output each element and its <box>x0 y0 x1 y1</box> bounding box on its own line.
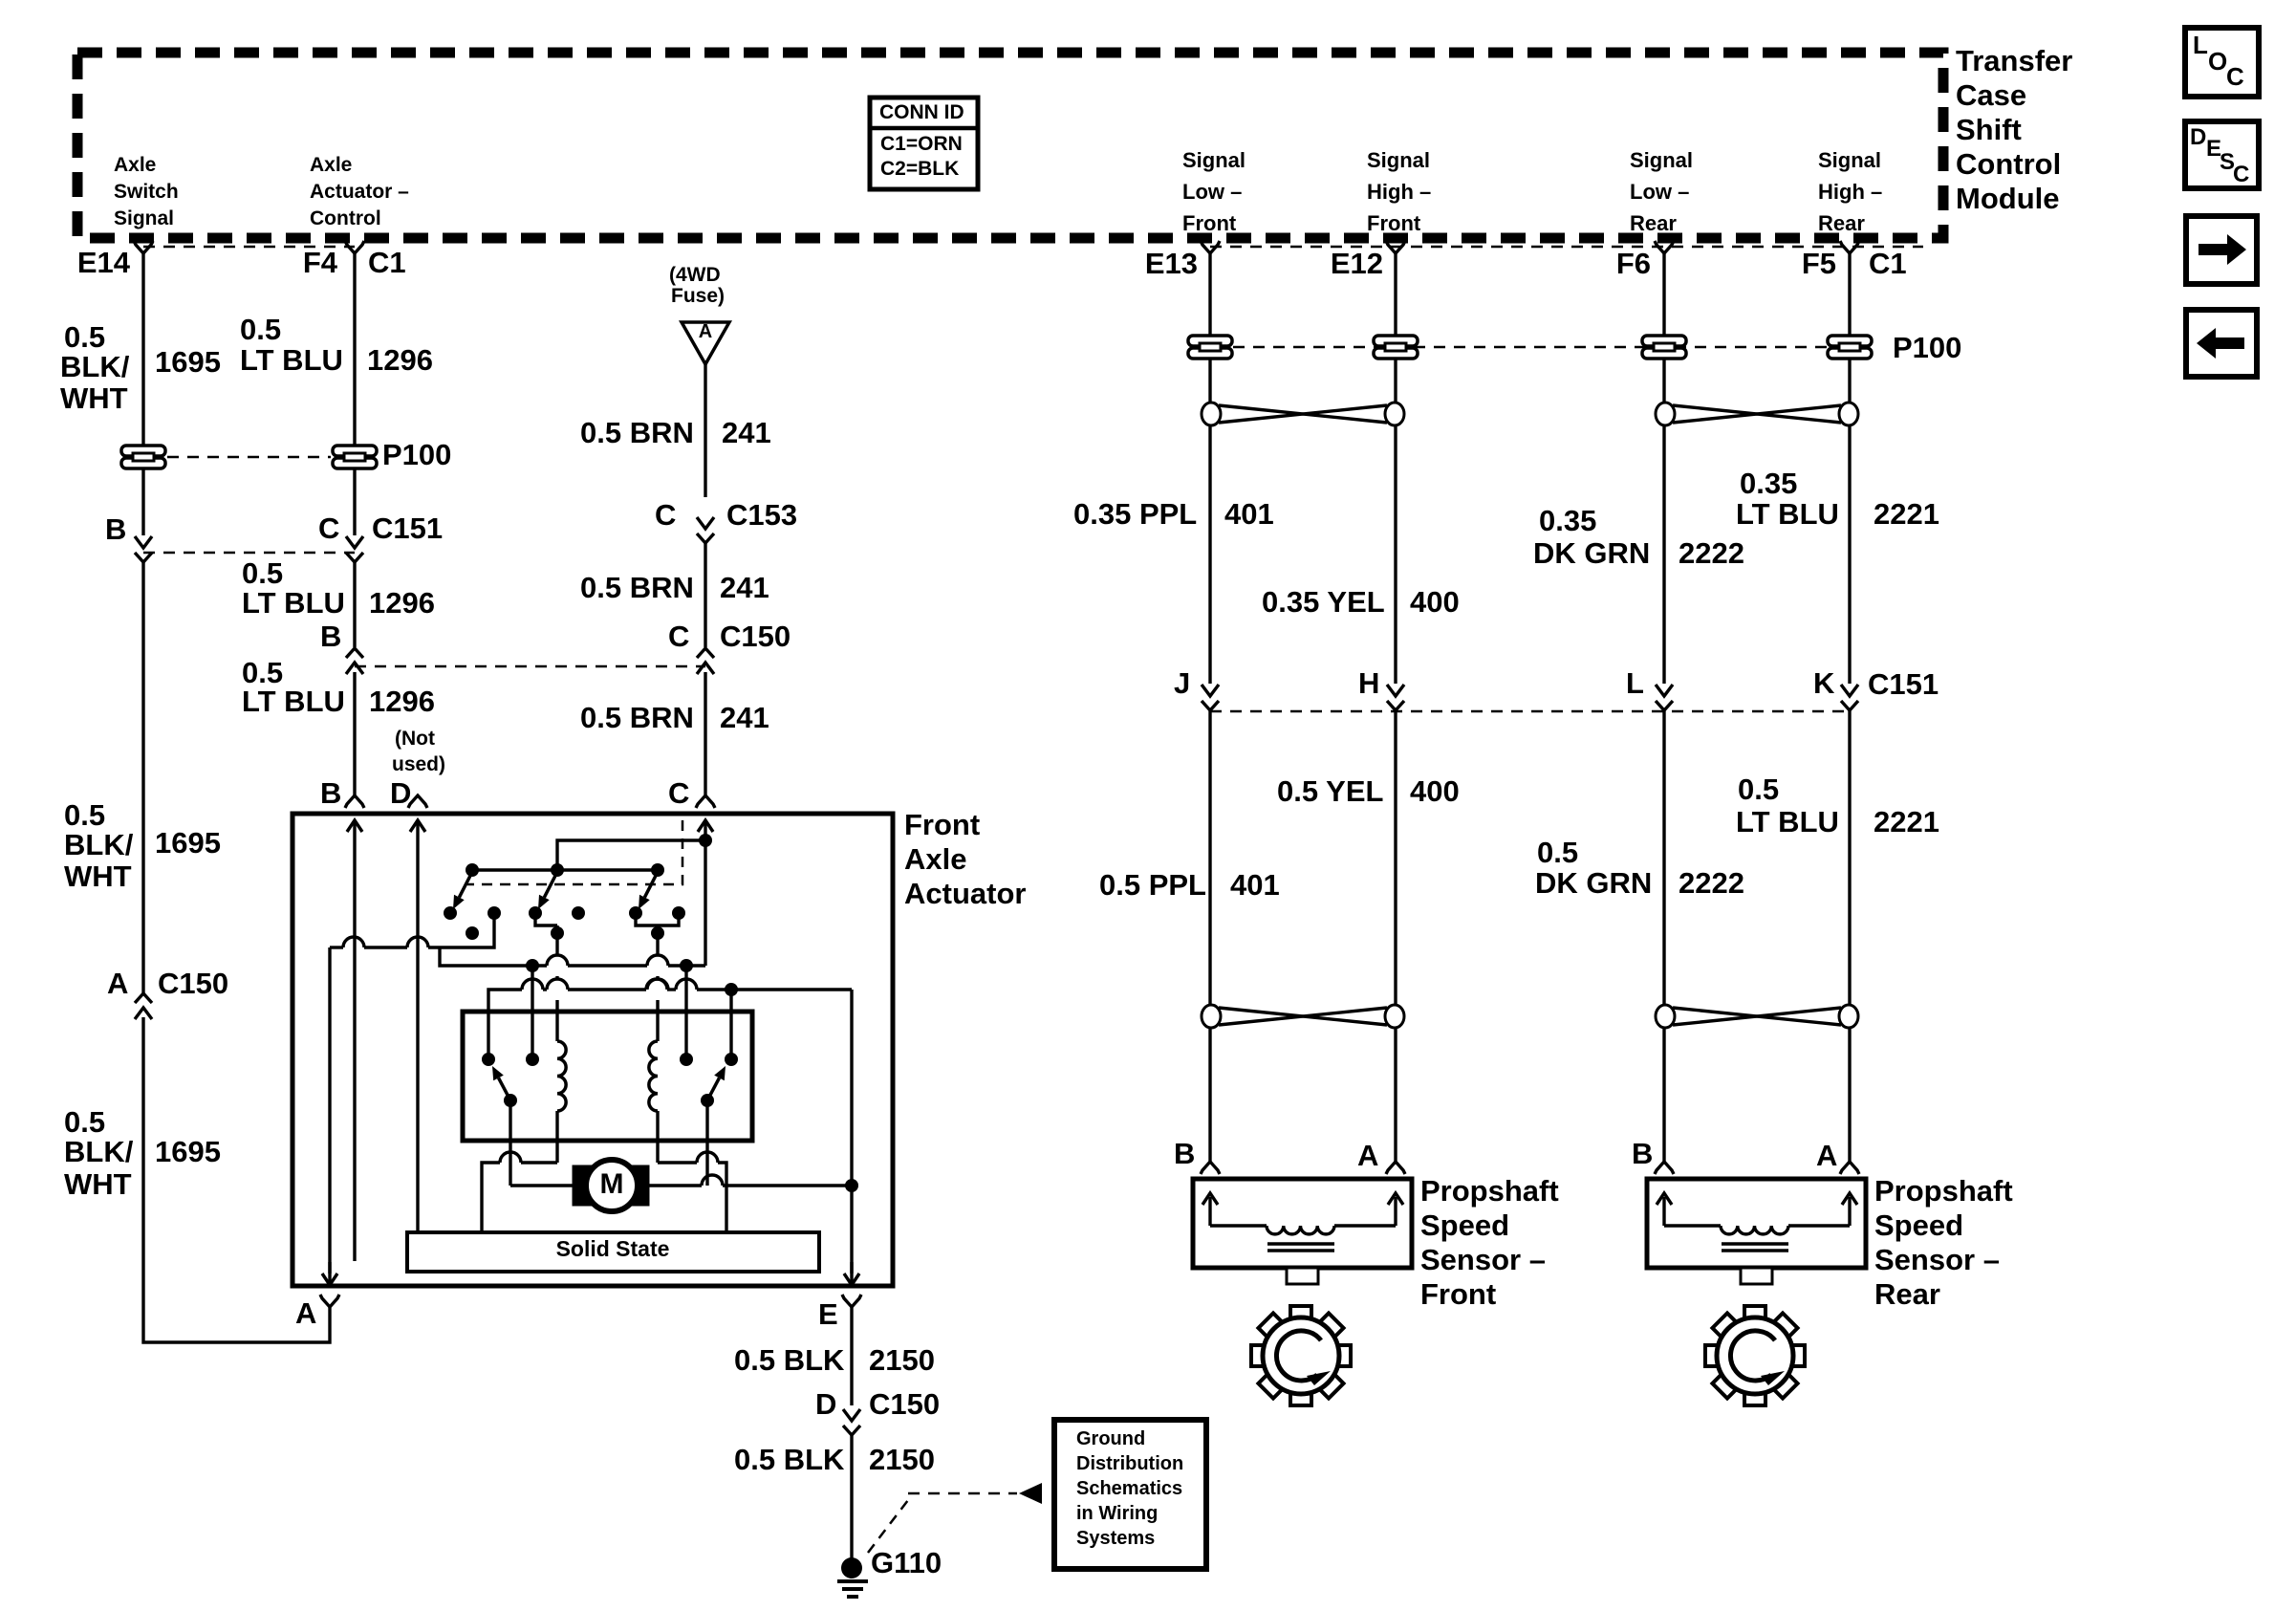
DESC icon box <box>2185 121 2259 188</box>
svg-text:0.5 BRN: 0.5 BRN <box>580 416 694 449</box>
fuse A symbol (4WD fuse feed) <box>682 321 729 364</box>
wire 401 segment: twist to sensor pin B <box>1208 1029 1211 1162</box>
svg-text:Signal: Signal <box>1182 148 1245 172</box>
svg-text:B: B <box>1174 1137 1195 1170</box>
actuator internal bus E (motor return) <box>488 979 852 1186</box>
inline connector C150 pin B (wire 1296) <box>346 648 363 674</box>
wire label 0.5 BLK/WHT (top) <box>60 320 130 415</box>
svg-text:L: L <box>1626 666 1644 700</box>
actuator switch 3 movable contact arrow <box>639 872 658 909</box>
svg-text:Signal: Signal <box>1818 148 1881 172</box>
twisted pair symbol (rear, upper) <box>1656 403 1858 425</box>
svg-text:1695: 1695 <box>155 826 221 860</box>
svg-text:in Wiring: in Wiring <box>1076 1503 1158 1524</box>
svg-text:0.35: 0.35 <box>1740 467 1797 500</box>
svg-text:BLK/: BLK/ <box>64 1135 134 1168</box>
actuator wire: switch 3 contacts to right coil <box>636 913 679 1041</box>
wire label 0.5 DK GRN <box>1535 836 1652 900</box>
wire 1296 segment: C150 to actuator pin B <box>353 672 356 796</box>
module pin label: Signal High Rear <box>1818 148 1882 235</box>
wire segment: E13 (PPL 401) pin to P100 <box>1208 253 1211 335</box>
svg-text:B: B <box>320 776 341 810</box>
svg-text:(4WD: (4WD <box>669 264 721 286</box>
pass-through grommet P100 on wire 1296 <box>333 446 377 468</box>
pin F4 terminal fork <box>345 241 364 253</box>
svg-text:Low –: Low – <box>1630 180 1689 204</box>
svg-text:1296: 1296 <box>369 586 435 620</box>
svg-text:(Not: (Not <box>395 728 435 750</box>
svg-text:1695: 1695 <box>155 1135 221 1168</box>
svg-text:Front: Front <box>1182 211 1237 235</box>
svg-text:401: 401 <box>1230 868 1280 902</box>
wire 1695 segment: E14 to P100 <box>141 253 144 446</box>
wire 401 segment: twist to C151 <box>1208 426 1211 684</box>
LOC icon box <box>2185 28 2259 97</box>
svg-text:A: A <box>295 1296 316 1330</box>
svg-text:B: B <box>320 620 341 653</box>
svg-text:J: J <box>1174 666 1190 700</box>
wire 401 segment: P100 to twist <box>1208 359 1211 402</box>
actuator pin C terminal fork <box>696 795 715 808</box>
relay right coil L2 <box>649 1041 658 1163</box>
pin E13 terminal fork <box>1201 241 1220 253</box>
sensor pickup coil circuit (Front) <box>1202 1193 1403 1251</box>
svg-text:Rear: Rear <box>1630 211 1677 235</box>
module pin label: Signal Low Front <box>1182 148 1245 235</box>
svg-text:C150: C150 <box>158 967 228 1000</box>
actuator internal dashed wire from pin C <box>467 820 682 884</box>
svg-text:DK GRN: DK GRN <box>1535 866 1652 900</box>
pin E14 terminal fork <box>134 241 153 253</box>
svg-text:C: C <box>668 776 689 810</box>
actuator pin E terminal fork <box>842 1295 861 1307</box>
module box: Transfer Case Shift Control Module (dashed) <box>77 53 1943 238</box>
svg-text:0.5 BLK: 0.5 BLK <box>734 1343 845 1377</box>
svg-text:M: M <box>600 1168 624 1200</box>
svg-text:Signal: Signal <box>114 207 174 229</box>
svg-text:0.5 BRN: 0.5 BRN <box>580 701 694 734</box>
actuator wire: switch 2 contact to left coil <box>535 913 568 1041</box>
P100 dashed link (right) <box>1233 346 1827 349</box>
reluctor gear (Rear) <box>1705 1306 1805 1405</box>
svg-text:WHT: WHT <box>60 381 128 415</box>
sensor rear pin B fork <box>1655 1162 1674 1174</box>
svg-text:C150: C150 <box>720 620 791 653</box>
pass-through grommet P100 on wire 1695 <box>121 446 165 468</box>
svg-text:C: C <box>668 620 689 653</box>
svg-text:WHT: WHT <box>64 860 132 893</box>
actuator internal bus A (relay feed) <box>440 947 705 972</box>
svg-text:LT BLU: LT BLU <box>1736 497 1839 531</box>
svg-text:C151: C151 <box>372 512 443 545</box>
actuator wire: right pivot to motor <box>705 1100 708 1186</box>
sensor pickup coil circuit (Rear) <box>1657 1193 1857 1251</box>
relay right movable contact arrow <box>701 1066 726 1107</box>
svg-text:High –: High – <box>1367 180 1431 204</box>
svg-text:0.5 YEL: 0.5 YEL <box>1277 774 1383 808</box>
svg-text:K: K <box>1813 666 1835 700</box>
reluctor gear (Front) <box>1251 1306 1351 1405</box>
motor M <box>573 1160 649 1211</box>
svg-text:Case: Case <box>1956 78 2026 112</box>
actuator switch common feed wire <box>557 834 712 870</box>
svg-text:0.35 PPL: 0.35 PPL <box>1073 497 1197 531</box>
svg-text:A: A <box>107 967 128 1000</box>
svg-text:1695: 1695 <box>155 345 221 379</box>
module pin label: Signal Low Rear <box>1630 148 1693 235</box>
svg-text:C: C <box>318 512 339 545</box>
svg-text:2222: 2222 <box>1679 536 1744 570</box>
wire label 0.5 LT BLU <box>1736 773 1839 838</box>
actuator wire: bus A to relay right contact <box>684 966 687 1059</box>
wire segment: F5 (LT BLU 2221) pin to P100 <box>1848 253 1851 335</box>
sensor rear pin A fork <box>1840 1162 1859 1174</box>
inline connector C151 pin C (wire 1296) <box>346 536 363 562</box>
wire label 0.5 BLK/WHT (middle) <box>64 798 134 893</box>
svg-text:2150: 2150 <box>869 1343 935 1377</box>
Front Axle Actuator box <box>292 814 893 1286</box>
wire label 0.5 LT BLU (bottom) <box>242 656 345 718</box>
svg-text:E: E <box>818 1297 838 1331</box>
svg-text:Actuator: Actuator <box>904 877 1026 910</box>
pin E12 terminal fork <box>1386 241 1405 253</box>
svg-text:0.5: 0.5 <box>64 798 105 832</box>
svg-text:L: L <box>2193 31 2208 59</box>
inline connector C153 pin C <box>697 517 714 543</box>
actuator pin D entry arrow <box>410 820 425 1233</box>
pass-through grommet P100 on wire F5 <box>1828 336 1872 359</box>
svg-text:0.5: 0.5 <box>1537 836 1578 869</box>
svg-text:LT BLU: LT BLU <box>242 586 345 620</box>
svg-text:A: A <box>699 321 712 342</box>
svg-text:241: 241 <box>720 701 769 734</box>
wire label 0.5 LT BLU (middle) <box>242 556 345 620</box>
wire 2222 segment: P100 to twist <box>1662 359 1665 402</box>
svg-text:B: B <box>1632 1137 1653 1170</box>
svg-text:LT BLU: LT BLU <box>240 343 343 377</box>
svg-text:Schematics: Schematics <box>1076 1478 1182 1499</box>
actuator pin A terminal fork <box>320 1295 339 1307</box>
actuator switch 1 movable contact arrow <box>453 872 472 909</box>
module pin label: Axle Actuator Control <box>310 154 409 229</box>
svg-text:Axle: Axle <box>114 154 156 176</box>
actuator wire: bus A to relay left contact <box>531 966 533 1059</box>
actuator pin B entry arrow <box>347 820 362 1261</box>
svg-text:400: 400 <box>1410 585 1460 619</box>
inline connector C151 pin J <box>1202 685 1219 710</box>
svg-text:Rear: Rear <box>1874 1277 1940 1311</box>
connector C1 dashed line (right, pins E13-F5) <box>1210 246 1923 249</box>
actuator pin A rail <box>322 947 337 1285</box>
twisted pair symbol (front, upper) <box>1202 403 1404 425</box>
svg-text:P100: P100 <box>382 438 451 471</box>
relay left movable contact arrow <box>492 1066 517 1107</box>
sensor mounting tab (Front) <box>1287 1268 1318 1284</box>
inline connector C150 pin D (wire 2150) <box>843 1409 860 1435</box>
svg-text:CONN ID: CONN ID <box>879 101 964 123</box>
svg-text:Distribution: Distribution <box>1076 1453 1183 1474</box>
actuator switch stationary contacts <box>444 906 685 940</box>
module pin label: Signal High Front <box>1367 148 1431 235</box>
svg-text:2150: 2150 <box>869 1443 935 1476</box>
svg-text:C1=ORN: C1=ORN <box>880 133 963 155</box>
wire segment: E12 (YEL 400) pin to P100 <box>1394 253 1397 335</box>
svg-text:0.5: 0.5 <box>64 1105 105 1139</box>
actuator wire: motor to pin E junction <box>649 1175 858 1192</box>
svg-text:O: O <box>2208 47 2227 76</box>
svg-text:0.5: 0.5 <box>64 320 105 354</box>
CONN ID table <box>870 98 978 189</box>
actuator switch common bus wire <box>466 863 664 877</box>
svg-text:2222: 2222 <box>1679 866 1744 900</box>
svg-text:Shift: Shift <box>1956 113 2022 146</box>
wire 1695 segment: C150 to Front Axle Actuator pin A <box>143 1017 330 1342</box>
svg-text:H: H <box>1358 666 1379 700</box>
svg-text:0.5: 0.5 <box>240 313 281 346</box>
svg-text:Sensor –: Sensor – <box>1420 1243 1546 1276</box>
inline connector C151 pin L <box>1656 685 1673 710</box>
svg-text:BLK/: BLK/ <box>64 828 134 861</box>
wire 1695 segment: P100 to C151 <box>141 468 144 535</box>
svg-text:241: 241 <box>720 571 769 604</box>
wire 1296 segment: F4 to P100 <box>353 253 356 446</box>
twisted pair symbol (rear, lower) <box>1656 1005 1858 1028</box>
svg-text:WHT: WHT <box>64 1167 132 1201</box>
svg-text:0.5 BLK: 0.5 BLK <box>734 1443 845 1476</box>
svg-text:Control: Control <box>1956 147 2061 181</box>
wire 241 segment: C153 to C150 <box>704 543 706 647</box>
svg-text:E13: E13 <box>1145 247 1198 280</box>
svg-text:G110: G110 <box>871 1546 942 1579</box>
svg-text:C1: C1 <box>368 246 406 279</box>
actuator wire: contact to pin A bus <box>330 913 494 947</box>
pin F6 terminal fork <box>1655 241 1674 253</box>
connector C150 dashed link (wire 1296 to wire 241) <box>355 665 705 668</box>
svg-text:A: A <box>1357 1139 1378 1172</box>
svg-text:2221: 2221 <box>1874 497 1939 531</box>
svg-text:Propshaft: Propshaft <box>1420 1174 1559 1208</box>
svg-text:C: C <box>2233 162 2249 187</box>
svg-text:1296: 1296 <box>369 685 435 718</box>
svg-text:Axle: Axle <box>904 842 966 876</box>
note box: Ground Distribution Schematics in Wiring Systems <box>1054 1420 1206 1569</box>
svg-text:LT BLU: LT BLU <box>242 685 345 718</box>
wire 2150 segment: actuator E to C150 <box>850 1307 853 1405</box>
inline connector C151 pin H <box>1387 685 1404 710</box>
svg-text:High –: High – <box>1818 180 1882 204</box>
wire label 0.5 BLK/WHT (bottom) <box>64 1105 134 1201</box>
actuator relay assembly box <box>463 1012 752 1141</box>
actuator wire: left coil to solid state <box>482 1152 557 1233</box>
svg-text:Switch: Switch <box>114 181 179 203</box>
wire 2150 segment: C150 to ground G110 <box>850 1435 853 1558</box>
P100 dashed link (left) <box>167 456 331 459</box>
connector C151 dashed link (left) <box>143 552 355 555</box>
relay left coil L1 <box>557 1041 566 1163</box>
svg-text:D: D <box>2190 124 2206 150</box>
svg-text:Front: Front <box>1367 211 1421 235</box>
svg-text:0.5 PPL: 0.5 PPL <box>1099 868 1206 902</box>
sensor name label (Rear) <box>1874 1174 2013 1311</box>
wire 400 segment: C151 to twist <box>1394 710 1397 1004</box>
svg-text:0.35: 0.35 <box>1539 504 1596 537</box>
sensor mounting tab (Rear) <box>1741 1268 1772 1284</box>
wire 2222 segment: twist to sensor pin B <box>1662 1029 1665 1162</box>
svg-text:Signal: Signal <box>1367 148 1430 172</box>
svg-text:Fuse): Fuse) <box>671 285 725 307</box>
wire 400 segment: twist to sensor pin A <box>1394 1029 1397 1162</box>
svg-text:P100: P100 <box>1893 331 1961 364</box>
svg-text:2221: 2221 <box>1874 805 1939 838</box>
svg-text:0.5: 0.5 <box>1738 773 1779 806</box>
wire 2221 segment: twist to C151 <box>1848 426 1851 684</box>
solid state module <box>407 1232 819 1272</box>
svg-text:Actuator –: Actuator – <box>310 181 409 203</box>
svg-text:Systems: Systems <box>1076 1528 1155 1549</box>
svg-text:1296: 1296 <box>367 343 433 377</box>
svg-text:BLK/: BLK/ <box>60 350 130 383</box>
wire 241 segment: fuse to C153 <box>704 364 706 497</box>
svg-text:Propshaft: Propshaft <box>1874 1174 2013 1208</box>
sensor name label (Front) <box>1420 1174 1559 1311</box>
actuator wire: bus E to relay right contact <box>729 990 732 1059</box>
svg-text:400: 400 <box>1410 774 1460 808</box>
wire 2221 segment: C151 to twist <box>1848 710 1851 1004</box>
svg-text:Transfer: Transfer <box>1956 44 2072 77</box>
svg-text:F4: F4 <box>303 246 338 279</box>
svg-text:F6: F6 <box>1616 247 1651 280</box>
actuator wire: right coil to solid state <box>658 1152 726 1233</box>
fuse label (4WD Fuse) <box>669 264 725 307</box>
svg-text:D: D <box>390 776 411 810</box>
module pin label: Axle Switch Signal <box>114 154 179 229</box>
actuator pin D terminal fork (not used) <box>408 795 427 808</box>
previous page arrow icon box <box>2186 310 2257 377</box>
actuator pin B terminal fork <box>345 795 364 808</box>
wire 400 segment: P100 to twist <box>1394 359 1397 402</box>
svg-text:Rear: Rear <box>1818 211 1865 235</box>
svg-text:Module: Module <box>1956 182 2060 215</box>
svg-text:C151: C151 <box>1868 667 1939 701</box>
wire 1695 segment: C151 to C150 <box>141 562 144 994</box>
svg-text:0.35 YEL: 0.35 YEL <box>1262 585 1385 619</box>
svg-text:E14: E14 <box>77 246 131 279</box>
svg-text:D: D <box>815 1387 836 1421</box>
svg-text:C: C <box>2226 62 2244 91</box>
wire 2221 segment: P100 to twist <box>1848 359 1851 402</box>
svg-text:Speed: Speed <box>1874 1208 1963 1242</box>
pass-through grommet P100 on wire E13 <box>1188 336 1232 359</box>
svg-text:B: B <box>105 512 126 546</box>
ground symbol G110 <box>837 1557 868 1597</box>
svg-text:Front: Front <box>1420 1277 1496 1311</box>
inline connector C151 pin B (wire 1695) <box>135 536 152 562</box>
pass-through grommet P100 on wire E12 <box>1374 336 1418 359</box>
sensor front pin B fork <box>1201 1162 1220 1174</box>
svg-text:used): used) <box>392 753 445 775</box>
connector C151 dashed link (right) <box>1210 710 1850 713</box>
connector C1 dashed line (left, pins E14-F4) <box>143 246 355 249</box>
pass-through grommet P100 on wire F6 <box>1642 336 1686 359</box>
svg-text:241: 241 <box>722 416 771 449</box>
wire 400 segment: twist to C151 <box>1394 426 1397 684</box>
inline connector C150 pin C (wire 241) <box>697 648 714 674</box>
svg-text:Axle: Axle <box>310 154 352 176</box>
next page arrow icon box <box>2186 216 2257 284</box>
wire 401 segment: C151 to twist <box>1208 710 1211 1004</box>
svg-text:C: C <box>655 498 676 532</box>
svg-text:LT BLU: LT BLU <box>1736 805 1839 838</box>
Front Axle Actuator label <box>904 808 1026 910</box>
sensor front pin A fork <box>1386 1162 1405 1174</box>
wire 1296 segment: P100 to C151 <box>353 468 356 535</box>
wire 241 segment: C150 to actuator pin C <box>704 672 706 796</box>
svg-text:Signal: Signal <box>1630 148 1693 172</box>
svg-text:0.5 BRN: 0.5 BRN <box>580 571 694 604</box>
wire 2222 segment: twist to C151 <box>1662 426 1665 684</box>
svg-text:Control: Control <box>310 207 381 229</box>
actuator switch 2 movable contact arrow <box>538 872 557 909</box>
svg-text:E12: E12 <box>1331 247 1383 280</box>
module name label: Transfer Case Shift Control Module <box>1956 44 2072 215</box>
relay stationary contacts <box>482 1053 738 1066</box>
twisted pair symbol (front, lower) <box>1202 1005 1404 1028</box>
svg-text:Speed: Speed <box>1420 1208 1509 1242</box>
svg-text:A: A <box>1816 1139 1837 1172</box>
svg-text:Front: Front <box>904 808 980 841</box>
wire label 0.35 DK GRN <box>1533 504 1650 570</box>
wire 1296 segment: C151 to C150 <box>353 562 356 647</box>
svg-text:Sensor –: Sensor – <box>1874 1243 2000 1276</box>
actuator pin E rail <box>844 1186 859 1285</box>
wire 2222 segment: C151 to twist <box>1662 710 1665 1004</box>
note label (Not used) <box>392 728 445 775</box>
wire label 0.35 LT BLU <box>1736 467 1839 531</box>
inline connector C150 pin A (wire 1695) <box>135 993 152 1019</box>
svg-text:C153: C153 <box>726 498 797 532</box>
svg-text:Solid State: Solid State <box>556 1236 670 1261</box>
Propshaft Speed Sensor box (Rear) <box>1647 1179 1866 1268</box>
inline connector C151 pin K <box>1841 685 1858 710</box>
svg-text:C1: C1 <box>1869 247 1907 280</box>
wire label 0.5 LT BLU (top) <box>240 313 343 377</box>
Propshaft Speed Sensor box (Front) <box>1193 1179 1412 1268</box>
svg-text:401: 401 <box>1224 497 1274 531</box>
svg-text:Ground: Ground <box>1076 1428 1145 1449</box>
wire 2221 segment: twist to sensor pin A <box>1848 1029 1851 1162</box>
svg-text:C150: C150 <box>869 1387 940 1421</box>
actuator pin C entry arrow <box>698 820 713 966</box>
wire segment: F6 (DK GRN 2222) pin to P100 <box>1662 253 1665 335</box>
note leader dashed arrow to Ground Distribution Schematics <box>868 1483 1042 1553</box>
svg-text:C2=BLK: C2=BLK <box>880 158 959 180</box>
svg-text:0.5: 0.5 <box>242 556 283 590</box>
svg-text:Low –: Low – <box>1182 180 1242 204</box>
svg-text:F5: F5 <box>1802 247 1836 280</box>
pin F5 terminal fork <box>1840 241 1859 253</box>
svg-text:DK GRN: DK GRN <box>1533 536 1650 570</box>
actuator wire: left pivot to motor <box>510 1100 573 1186</box>
